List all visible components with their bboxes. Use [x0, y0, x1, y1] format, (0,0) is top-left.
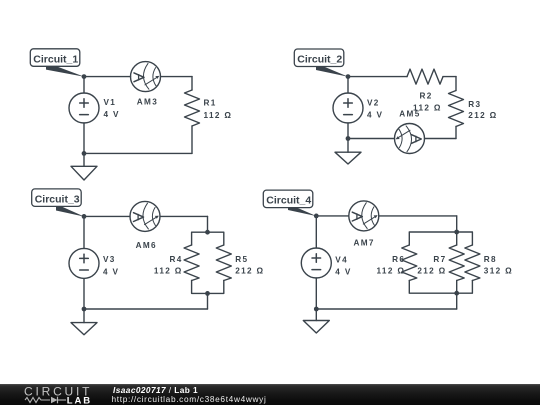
resistor R8: [465, 245, 480, 281]
voltage source V2: [333, 93, 363, 123]
wire right: corner down to resistor R3: [455, 77, 457, 91]
svg-text:R3: R3: [468, 100, 481, 109]
svg-text:112 Ω: 112 Ω: [204, 111, 233, 120]
wire right: corner down to parallel top bar: [456, 216, 458, 232]
ammeter AM3: [131, 62, 161, 92]
wire: top node down to V2: [347, 77, 349, 93]
resistor R7: [449, 245, 464, 281]
wire bottom rail: [84, 308, 208, 310]
svg-text:R5: R5: [235, 255, 248, 264]
svg-text:R8: R8: [484, 255, 497, 264]
value label 112 Ω (R4): [154, 266, 183, 275]
net label Circuit_4: [263, 190, 316, 216]
ground (circuit 4): [303, 309, 329, 333]
value label 112 Ω (R6): [376, 266, 405, 275]
wire top: node to ammeter AM7: [316, 215, 349, 217]
value label 4 V (V2): [367, 110, 383, 119]
net label Circuit_2: [294, 49, 348, 77]
svg-text:R4: R4: [170, 255, 183, 264]
label V4: [335, 256, 348, 265]
svg-text:312 Ω: 312 Ω: [484, 266, 513, 275]
ground (circuit 2): [335, 139, 361, 165]
label AM5: [399, 110, 420, 119]
value label 4 V (V4): [335, 267, 351, 276]
wire bottom: corner to ammeter AM5: [425, 138, 457, 140]
wire: top node down to V4: [315, 216, 317, 248]
svg-text:R2: R2: [420, 92, 433, 101]
svg-text:AM5: AM5: [399, 110, 420, 119]
label R8: [484, 255, 497, 264]
svg-text:V3: V3: [103, 255, 116, 264]
svg-text:V2: V2: [367, 99, 380, 108]
resistor R3: [449, 91, 464, 127]
node: parallel bottom bar junction (circuit 4): [454, 291, 459, 296]
svg-text:AM7: AM7: [354, 238, 375, 247]
value label 4 V (V1): [104, 110, 120, 119]
label R2: [420, 92, 433, 101]
wire bottom rail: [316, 308, 456, 310]
wire right: corner down to resistor R1: [191, 77, 193, 90]
wire bottom: ammeter AM5 to node: [348, 138, 395, 140]
wire: R7 top stub: [456, 232, 458, 245]
svg-text:212 Ω: 212 Ω: [468, 111, 497, 120]
wire right: resistor R1 to bottom corner: [191, 126, 193, 153]
wire: bottom bar down to bottom rail: [207, 293, 209, 309]
ground (circuit 1): [71, 153, 97, 180]
node: circuit 3 top: [82, 214, 87, 219]
wire: parallel bottom bar: [192, 281, 224, 294]
value label 112 Ω (R1): [204, 111, 233, 120]
wire: R7 bottom stub: [456, 281, 458, 294]
node: circuit 4 top: [314, 214, 319, 219]
label R5: [235, 255, 248, 264]
resistor R2: [407, 69, 443, 84]
svg-text:4 V: 4 V: [103, 268, 119, 277]
wire: V1 down to bottom node: [83, 123, 85, 153]
svg-text:4 V: 4 V: [335, 267, 351, 276]
node: parallel bottom bar junction: [205, 291, 210, 296]
CircuitLab logo: [0, 384, 100, 405]
wire: parallel top bar: [409, 232, 472, 245]
svg-text:Circuit_2: Circuit_2: [297, 54, 342, 66]
value label 212 Ω (R7): [417, 266, 446, 275]
node: parallel top bar junction (circuit 4): [454, 230, 459, 235]
svg-text:Circuit_4: Circuit_4: [266, 195, 311, 207]
label V1: [104, 98, 117, 107]
ground (circuit 3): [71, 309, 97, 335]
wire right: corner down to parallel top bar: [207, 216, 209, 232]
label R6: [392, 255, 405, 264]
svg-text:212 Ω: 212 Ω: [417, 266, 446, 275]
wire: V2 down to bottom node: [347, 123, 349, 139]
resistor R1: [185, 90, 200, 126]
svg-text:AM3: AM3: [137, 97, 158, 106]
value label 112 Ω (R2): [413, 104, 442, 113]
svg-text:112 Ω: 112 Ω: [154, 266, 183, 275]
wire top: node to ammeter AM6: [84, 215, 130, 217]
svg-text:R1: R1: [204, 99, 217, 108]
svg-text:Circuit_1: Circuit_1: [33, 53, 78, 65]
voltage source V1: [69, 93, 99, 123]
value label 312 Ω (R8): [484, 266, 513, 275]
wire: bottom bar down to bottom rail: [456, 293, 458, 309]
svg-text:LAB: LAB: [67, 395, 92, 405]
svg-text:Circuit_3: Circuit_3: [35, 193, 80, 205]
node: parallel top bar junction: [205, 230, 210, 235]
wire: V4 down to bottom node: [315, 278, 317, 309]
label R1: [204, 99, 217, 108]
ammeter AM5: [395, 124, 425, 154]
label AM3: [137, 97, 158, 106]
wire right: resistor R3 down to bottom corner: [455, 127, 457, 139]
node: circuit 2 bottom: [346, 136, 351, 141]
svg-text:112 Ω: 112 Ω: [376, 266, 405, 275]
node: circuit 3 bottom: [82, 307, 87, 312]
net label Circuit_1: [30, 49, 84, 77]
voltage source V3: [69, 248, 99, 278]
value label 4 V (V3): [103, 268, 119, 277]
node: circuit 1 top: [82, 74, 87, 79]
label R7: [433, 255, 446, 264]
resistor R5: [216, 245, 231, 281]
wire: V3 down to bottom node: [83, 278, 85, 309]
node: circuit 2 top: [346, 74, 351, 79]
label R4: [170, 255, 183, 264]
svg-text:212 Ω: 212 Ω: [235, 266, 264, 275]
footer title: Isaac020717 / Lab 1: [113, 386, 198, 394]
svg-text:AM6: AM6: [136, 241, 157, 250]
label V3: [103, 255, 116, 264]
footer bar: [0, 384, 540, 405]
label R3: [468, 100, 481, 109]
svg-text:4 V: 4 V: [104, 110, 120, 119]
svg-text:V4: V4: [335, 256, 348, 265]
wire top: ammeter AM7 to right corner: [379, 215, 457, 217]
logo diode: [51, 397, 58, 404]
label V2: [367, 99, 380, 108]
net label Circuit_3: [32, 189, 85, 217]
voltage source V4: [301, 248, 331, 278]
wire: top node down to V3: [83, 216, 85, 248]
svg-text:V1: V1: [104, 98, 117, 107]
wire: top node down to V1: [83, 77, 85, 93]
svg-text:R7: R7: [433, 255, 446, 264]
label AM7: [354, 238, 375, 247]
value label 212 Ω (R3): [468, 111, 497, 120]
label AM6: [136, 241, 157, 250]
wire top: resistor R2 to right corner: [443, 76, 456, 78]
resistor R6: [402, 245, 417, 281]
node: circuit 1 bottom: [82, 151, 87, 156]
wire top: ammeter to right corner: [161, 76, 193, 78]
wire: parallel top bar: [192, 232, 224, 245]
ammeter AM7: [349, 201, 379, 231]
svg-text:R6: R6: [392, 255, 405, 264]
wire top: node to ammeter: [84, 76, 131, 78]
node: circuit 4 bottom: [314, 307, 319, 312]
value label 212 Ω (R5): [235, 266, 264, 275]
wire top: node to resistor R2: [348, 76, 407, 78]
wire top: ammeter AM6 to right corner: [160, 215, 208, 217]
svg-text:4 V: 4 V: [367, 110, 383, 119]
logo waveform: resistor zigzag: [25, 398, 50, 403]
wire bottom: right corner to node: [84, 152, 192, 154]
footer url: [112, 395, 267, 403]
resistor R4: [184, 245, 199, 281]
wire: parallel bottom bar: [409, 281, 472, 294]
ammeter AM6: [130, 201, 160, 231]
